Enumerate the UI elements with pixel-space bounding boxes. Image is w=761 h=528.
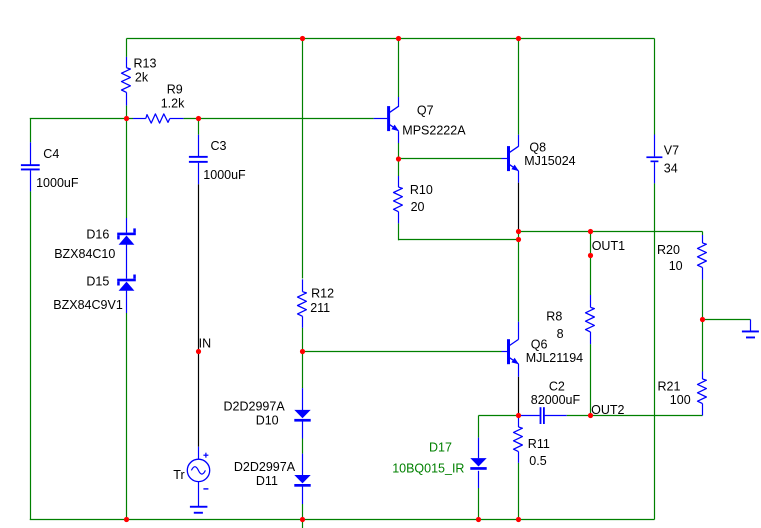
svg-text:D11: D11 [256, 474, 278, 488]
svg-text:C2: C2 [549, 380, 565, 394]
svg-text:1.2k: 1.2k [161, 97, 185, 111]
svg-text:BZX84C10: BZX84C10 [54, 247, 115, 261]
svg-text:D16: D16 [86, 228, 109, 242]
svg-text:IN: IN [199, 337, 212, 351]
svg-text:OUT1: OUT1 [592, 239, 625, 253]
svg-text:R10: R10 [410, 183, 433, 197]
svg-text:82000uF: 82000uF [531, 393, 581, 407]
svg-text:R8: R8 [546, 310, 562, 324]
svg-text:D2D2997A: D2D2997A [224, 399, 286, 413]
svg-text:MJL21194: MJL21194 [526, 351, 583, 365]
svg-text:211: 211 [310, 301, 330, 315]
svg-text:R13: R13 [134, 57, 157, 71]
svg-text:1000uF: 1000uF [203, 168, 246, 182]
svg-text:C4: C4 [43, 147, 59, 161]
svg-text:BZX84C9V1: BZX84C9V1 [53, 298, 123, 312]
svg-text:D15: D15 [86, 275, 109, 289]
svg-text:1000uF: 1000uF [36, 176, 79, 190]
svg-text:Q7: Q7 [417, 103, 434, 117]
svg-text:100: 100 [670, 393, 691, 407]
svg-text:Q8: Q8 [529, 140, 546, 154]
svg-text:Tr: Tr [173, 468, 184, 482]
svg-text:C3: C3 [211, 139, 227, 153]
svg-text:R20: R20 [657, 243, 680, 257]
svg-text:V7: V7 [664, 143, 679, 157]
svg-text:D2D2997A: D2D2997A [234, 460, 296, 474]
svg-text:MPS2222A: MPS2222A [402, 123, 466, 137]
svg-text:20: 20 [411, 200, 425, 214]
svg-text:R11: R11 [528, 437, 550, 451]
svg-text:Q6: Q6 [531, 338, 548, 352]
svg-text:0.5: 0.5 [529, 454, 546, 468]
svg-text:10BQ015_IR: 10BQ015_IR [392, 462, 464, 476]
svg-text:MJ15024: MJ15024 [524, 154, 575, 168]
svg-text:OUT2: OUT2 [591, 403, 624, 417]
svg-text:R21: R21 [658, 380, 681, 394]
svg-text:D17: D17 [429, 441, 452, 455]
svg-text:D10: D10 [256, 414, 279, 428]
svg-text:R12: R12 [311, 287, 334, 301]
svg-text:R9: R9 [167, 83, 183, 97]
svg-text:10: 10 [669, 259, 683, 273]
svg-text:2k: 2k [135, 71, 149, 85]
svg-text:34: 34 [664, 162, 678, 176]
svg-text:8: 8 [557, 327, 564, 341]
